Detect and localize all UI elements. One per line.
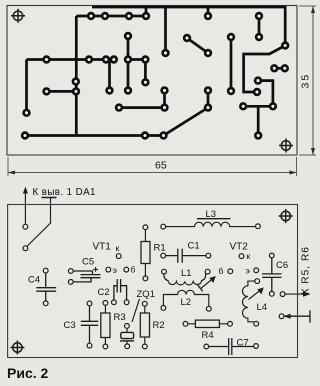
component holes (open pads) — [23, 224, 285, 349]
resistor R1 body — [141, 242, 150, 264]
svg-text:R4: R4 — [202, 330, 214, 341]
resistor R4 leads — [187, 323, 228, 325]
svg-text:L2: L2 — [181, 297, 192, 308]
capacitor C3 plates and leads — [81, 306, 98, 344]
wire output arrow up (К выв. 1 DA1) — [24, 190, 26, 227]
board outline (bottom panel) — [8, 205, 298, 358]
capacitor C1 plates and leads — [163, 249, 208, 263]
wire bottom bus y135.5 with diagonal — [25, 108, 208, 136]
wire pad row y16 — [76, 15, 146, 18]
svg-text:35: 35 — [300, 73, 312, 89]
wire vertical x128 — [127, 36, 130, 91]
svg-text:VT1: VT1 — [93, 242, 112, 253]
wire vertical x145.4 — [144, 60, 147, 83]
wire top bus with right drop — [92, 7, 285, 46]
dimension 65 (bottom) — [8, 157, 297, 176]
svg-text:К выв. 1 DA1: К выв. 1 DA1 — [33, 187, 96, 198]
wire y107.6 to pad (164.5,90.4) — [119, 90, 165, 107]
wire vertical x259 — [258, 16, 261, 37]
svg-text:C3: C3 — [64, 320, 76, 331]
inductor L4 winding — [243, 281, 255, 322]
svg-text:Рис. 2: Рис. 2 — [7, 365, 49, 381]
quartz ZQ1 body — [121, 332, 134, 338]
wire vertical x26.5 — [25, 60, 28, 113]
wire vertical x231 — [230, 37, 233, 91]
resistor R2 leads — [144, 306, 146, 344]
ZQ1 leader line — [132, 299, 140, 322]
wire stub to pad at x208 — [207, 7, 210, 16]
svg-text:б: б — [219, 266, 224, 276]
svg-text:к: к — [247, 251, 251, 261]
svg-text:К R5, R6: К R5, R6 — [301, 246, 312, 294]
resistor R1 leads — [144, 229, 146, 277]
pads mid upper — [124, 32, 290, 57]
capacitor C4 plates and leads — [36, 273, 56, 301]
inductor L2 with leads — [163, 290, 208, 307]
wire long left vertical x76 — [75, 16, 78, 136]
wire from label bar to pad — [25, 198, 50, 248]
svg-text:C5: C5 — [82, 257, 94, 268]
wire horizontal y59.5 right pair — [128, 58, 145, 61]
arrowhead left (antenna line) — [284, 314, 291, 319]
label tie bar under 'выв' — [42, 197, 57, 199]
fiducial mark top-right — [279, 209, 293, 223]
svg-text:C2: C2 — [98, 287, 110, 298]
pads row y16 — [87, 12, 263, 20]
svg-text:C7: C7 — [237, 338, 249, 349]
resistor R4 body — [195, 320, 219, 327]
pads bottom bus y135.5 — [21, 131, 263, 139]
L3 label underline — [197, 218, 230, 220]
arrowhead right (R5 R6 arrow) — [303, 292, 311, 297]
wire T stem x258.2 — [257, 106, 260, 135]
capacitor C2 plates and leads — [114, 279, 127, 301]
pads y80-92 — [42, 76, 262, 96]
wire horizontal y59.5 left group — [27, 58, 115, 61]
wire horizontal y91.4 — [47, 90, 77, 93]
dimension 35 (right) — [299, 6, 316, 155]
pads row y59.5 — [42, 55, 149, 63]
wire vertical x208 — [207, 90, 210, 107]
svg-text:б: б — [131, 265, 136, 275]
svg-text:ZQ1: ZQ1 — [137, 289, 155, 300]
svg-text:L3: L3 — [206, 209, 217, 220]
L1 tuning arrow — [201, 278, 214, 289]
svg-text:к: к — [116, 243, 120, 253]
svg-text:R1: R1 — [154, 243, 166, 254]
resistor R2 body — [140, 313, 149, 337]
quartz ZQ1 leads — [126, 328, 128, 344]
svg-text:C1: C1 — [188, 241, 200, 252]
wire vertical x109.5 — [108, 60, 111, 91]
board outline (top panel) — [7, 6, 297, 156]
fiducial mark bottom-right — [279, 139, 293, 153]
svg-text:VT2: VT2 — [230, 242, 249, 253]
ZQ1 lower plate — [120, 340, 134, 342]
wire stub to pad row at x146 — [145, 7, 148, 16]
arrowhead up (DA1 arrow) — [23, 187, 28, 194]
pads y106-113 — [22, 102, 277, 117]
L4 tuning arrow — [249, 289, 262, 299]
arrowhead L1 tuning — [209, 276, 216, 283]
capacitor C6 plates and leads — [262, 258, 282, 292]
inductor L3 with leads — [163, 222, 258, 226]
fiducial mark top-left — [11, 9, 25, 23]
capacitor C7 plates and leads — [209, 338, 254, 355]
svg-text:L4: L4 — [257, 302, 268, 313]
svg-text:э: э — [246, 266, 250, 276]
svg-text:э: э — [113, 265, 117, 275]
antenna line with T bar — [284, 310, 310, 322]
wire short pair y68.3 — [274, 67, 285, 70]
wire T horizontal y106.3 — [243, 105, 273, 108]
svg-text:65: 65 — [155, 160, 167, 172]
arrowhead L4 tuning — [257, 287, 264, 294]
fiducial mark bottom-left — [10, 341, 24, 355]
svg-text:C6: C6 — [276, 260, 288, 271]
C5 plus sign — [93, 267, 98, 272]
svg-text:R3: R3 — [114, 312, 126, 323]
svg-text:L1: L1 — [181, 268, 192, 279]
wire right-side bend from (285.2,45.5) — [244, 46, 286, 93]
wire diagonal (187,38)-(208,53) — [187, 38, 208, 53]
capacitor C5 plates and leads — [73, 271, 100, 282]
inductor L1 winding — [164, 274, 206, 285]
wire branch down to node at (165.5,53) — [164, 7, 167, 53]
pads right pair y68.3 — [270, 64, 289, 72]
resistor R3 leads — [104, 305, 106, 344]
wire bend (258,80.6)-(272.9,106.3) — [258, 81, 273, 107]
resistor R3 body — [101, 313, 110, 338]
svg-text:C4: C4 — [28, 275, 40, 286]
svg-text:R2: R2 — [153, 320, 165, 331]
output arrow right (К R5, R6) — [285, 293, 308, 295]
